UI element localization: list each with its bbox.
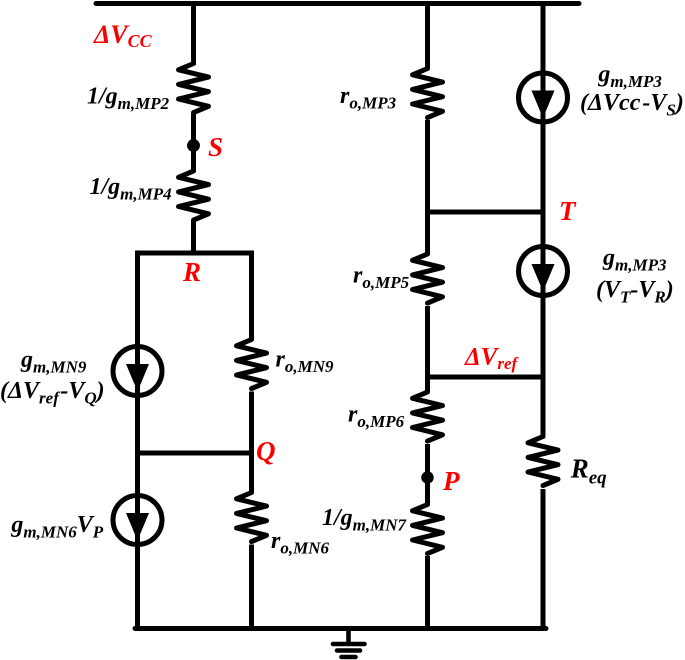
current source gm,MP3 upper circle [519, 73, 568, 122]
wire left column upper segment [191, 1, 196, 253]
svg-text:P: P [442, 466, 460, 496]
svg-text:Q: Q [256, 436, 276, 466]
node P [424, 474, 432, 482]
svg-text:(ΔVref-VQ): (ΔVref-VQ) [0, 378, 105, 408]
svg-text:gm,MN9: gm,MN9 [20, 347, 87, 377]
svg-text:1/gm,MN7: 1/gm,MN7 [322, 505, 408, 535]
resistor 1/gm,MP4 [179, 171, 209, 220]
svg-text:S: S [208, 132, 223, 162]
svg-text:(VT-VR): (VT-VR) [596, 277, 674, 307]
resistor ro,MP3 [413, 69, 443, 118]
svg-text:Req: Req [570, 454, 607, 489]
svg-text:gm,MN6VP: gm,MN6VP [10, 512, 103, 542]
wire node T horizontal [428, 210, 544, 215]
resistor Req [528, 437, 558, 486]
svg-text:ro,MP5: ro,MP5 [353, 263, 410, 293]
svg-text:gm,MP3: gm,MP3 [602, 245, 667, 275]
arrow of current source gm,MP3 lower [532, 264, 555, 292]
resistor 1/gm,MN7 [413, 505, 443, 554]
current source gm,MP3 lower circle [519, 247, 568, 296]
current source gm,MN6 circle [113, 496, 162, 545]
svg-text:ro,MP3: ro,MP3 [340, 83, 397, 113]
svg-text:ro,MN6: ro,MN6 [271, 528, 329, 558]
resistor ro,MP5 [413, 254, 443, 303]
svg-text:R: R [182, 257, 201, 287]
svg-text:ΔVCC: ΔVCC [93, 20, 153, 51]
wire top rail VCC [96, 1, 579, 6]
resistor ro,MN6 [237, 493, 267, 542]
resistor ro,MP6 [413, 392, 443, 441]
node S [189, 141, 197, 149]
svg-text:1/gm,MP2: 1/gm,MP2 [87, 84, 170, 114]
wire left box left side [135, 251, 140, 629]
wire node R horizontal [138, 251, 252, 256]
wire bottom rail [135, 626, 546, 631]
arrow of current source gm,MN6 [126, 513, 149, 541]
wire right column [541, 1, 546, 629]
svg-text:ro,MP6: ro,MP6 [348, 402, 405, 432]
current source gm,MN9 circle [113, 347, 162, 396]
wire node Q horizontal [138, 451, 252, 456]
svg-text:T: T [559, 196, 577, 226]
ground [333, 629, 365, 658]
wire middle column [425, 1, 430, 631]
resistor 1/gm,MP2 [179, 64, 209, 113]
arrow of current source gm,MP3 upper [532, 91, 555, 119]
svg-text:1/gm,MP4: 1/gm,MP4 [90, 174, 172, 204]
arrow of current source gm,MN9 [126, 364, 149, 392]
svg-text:ro,MN9: ro,MN9 [276, 347, 334, 377]
wire node dVref horizontal [428, 375, 544, 380]
resistor ro,MN9 [237, 340, 267, 389]
svg-text:(ΔVcc-VS): (ΔVcc-VS) [580, 90, 684, 120]
svg-text:gm,MP3: gm,MP3 [597, 62, 662, 92]
wire left box right side [249, 251, 254, 629]
svg-text:ΔVref: ΔVref [464, 344, 520, 374]
